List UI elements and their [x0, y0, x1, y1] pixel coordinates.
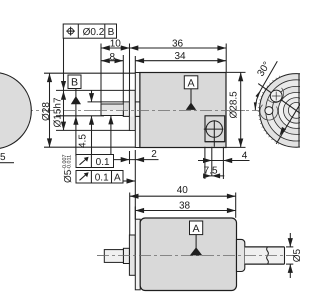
motor body (bottom view): [140, 218, 236, 291]
svg-text:Ø5: Ø5: [292, 249, 300, 263]
dimension D28.5: [227, 72, 246, 147]
collar: [237, 239, 245, 271]
leader to shaft bottom: [110, 116, 112, 156]
shaft (top view): [123, 102, 135, 117]
svg-text:7.5: 7.5: [204, 166, 218, 177]
dimension 40: [130, 185, 236, 199]
datum A (bottom view): [190, 221, 203, 255]
left shaft step: [123, 248, 129, 263]
extension verticals top: [100, 44, 102, 104]
boss strip (bottom view): [129, 235, 135, 275]
dimension row 8 / 34: [101, 51, 226, 63]
centerline over body: [95, 109, 245, 111]
flange disc (bottom view): [135, 219, 140, 290]
scallop arc bolt 1: [268, 88, 284, 103]
dimension 7.5: [203, 166, 224, 179]
ext line boss top: [56, 89, 131, 91]
ext line circle bottom / body bottom: [44, 146, 141, 148]
ext line shaft flat: [88, 101, 124, 103]
svg-text:34: 34: [174, 51, 186, 62]
datum B: [68, 75, 81, 156]
angular dim arc 30: [255, 90, 260, 111]
left shaft: [104, 250, 123, 263]
svg-text:A: A: [187, 78, 195, 90]
svg-text:2: 2: [151, 149, 157, 160]
dimension 2 with FCF leader: [114, 149, 159, 220]
D5 tolerance label: [62, 155, 74, 183]
svg-text:A: A: [114, 172, 121, 183]
centerline top view axis: [0, 109, 300, 111]
dimension D28: [49, 73, 51, 147]
datum A (top view): [184, 76, 198, 110]
end view face: [260, 74, 320, 148]
svg-text:4: 4: [242, 151, 248, 162]
right shaft with break: [245, 247, 285, 264]
boss D15h7 (top view): [129, 90, 135, 130]
svg-text:8: 8: [110, 52, 116, 63]
svg-text:-0.011: -0.011: [67, 155, 73, 170]
radial 30 deg line: [258, 84, 300, 114]
ext line boss bottom: [56, 129, 131, 131]
front circle view (left, clipped): [0, 72, 31, 149]
svg-text:Ø0.2: Ø0.2: [83, 27, 105, 38]
svg-text:36: 36: [172, 38, 184, 49]
svg-text:A: A: [193, 223, 201, 235]
svg-text:5: 5: [0, 152, 6, 163]
FCF runout 0.1: [76, 155, 114, 168]
motor body (top view): [135, 73, 140, 148]
svg-text:0.1: 0.1: [95, 172, 109, 183]
svg-text:4.5: 4.5: [78, 134, 89, 148]
svg-text:40: 40: [177, 185, 189, 196]
connector box: [204, 116, 225, 147]
dimension 38: [135, 200, 235, 213]
FCF runout 0.1 A: [76, 171, 135, 184]
svg-text:Ø28: Ø28: [41, 102, 52, 121]
scallop arc bolt 2: [260, 105, 278, 120]
dimension D5 (bottom shaft): [286, 233, 303, 278]
svg-text:10: 10: [110, 39, 122, 50]
svg-text:B: B: [108, 27, 115, 38]
motor body main (top view): [140, 73, 226, 148]
centerline bottom axis: [97, 255, 297, 257]
dimension 4.5: [78, 90, 95, 156]
dimension row 10 / 36: [101, 38, 226, 50]
svg-text:Ø5: Ø5: [63, 169, 74, 183]
bolt hole 1: [270, 90, 282, 102]
view cut edge line: [298, 74, 300, 148]
svg-text:38: 38: [179, 200, 191, 211]
lower radial leader: [276, 104, 300, 144]
serration ticks: [258, 76, 280, 145]
shaft lines through flange: [135, 101, 140, 103]
svg-text:Ø15h7: Ø15h7: [52, 97, 63, 127]
svg-text:0.1: 0.1: [96, 157, 110, 168]
FCF position tolerance box: [63, 24, 116, 38]
svg-text:B: B: [71, 77, 78, 89]
centerline over bottom body: [97, 255, 297, 257]
dimension D15h7 with FCF leader: [63, 38, 65, 130]
bolt hole 2: [265, 107, 273, 115]
svg-text:Ø28.5: Ø28.5: [228, 91, 239, 119]
ext line circle top / flange top: [44, 72, 137, 74]
ext line shaft bottom left: [56, 115, 104, 117]
shaft front section: [101, 104, 123, 116]
dimension 4 (connector): [198, 151, 250, 163]
extension verticals connector: [204, 147, 206, 179]
extension verticals bottom view: [129, 193, 131, 235]
